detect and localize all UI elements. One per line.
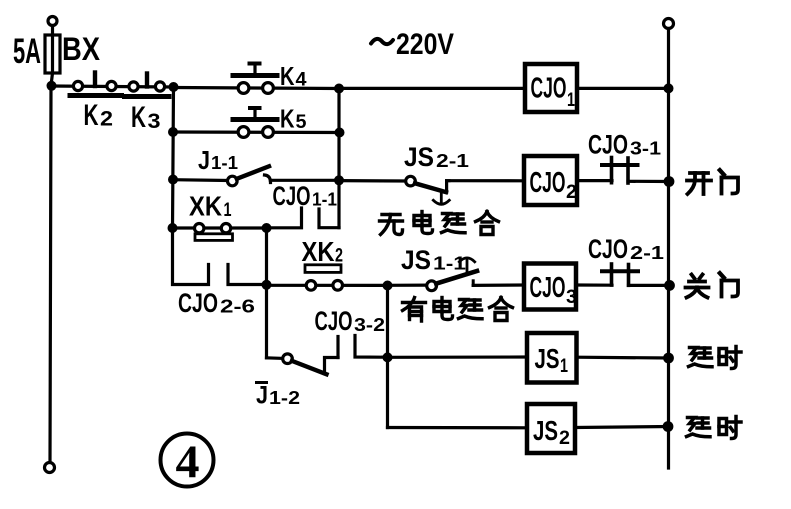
node junction close-door row / right bus	[664, 280, 675, 291]
svg-text:220V: 220V	[396, 28, 454, 61]
contact CJO1-1	[267, 208, 340, 228]
wire JS2 row	[388, 426, 528, 429]
svg-text:3-1: 3-1	[630, 139, 661, 159]
svg-text:2-6: 2-6	[220, 297, 255, 317]
label open-door 开门	[687, 170, 738, 194]
wire JS1-1 to coil CJO3	[473, 283, 524, 287]
label close-door 关门	[686, 273, 739, 297]
svg-text:4: 4	[176, 436, 200, 488]
node junction bus2 / K5 row	[168, 127, 178, 137]
svg-text:K: K	[84, 99, 99, 132]
svg-text:K: K	[131, 101, 146, 134]
svg-text:1-2: 1-2	[269, 388, 300, 408]
pushbutton K4	[233, 64, 277, 94]
wire right bus	[667, 29, 670, 469]
svg-text:XK: XK	[189, 191, 222, 222]
node junction delay1 row / right bus	[663, 353, 674, 364]
svg-text:CJO: CJO	[530, 167, 566, 199]
node junction row1 / bus2	[169, 82, 179, 92]
coil CJO1 box	[525, 64, 577, 112]
wire bus3 vertical	[337, 89, 340, 228]
node junction delay2 row / right bus	[663, 421, 674, 432]
svg-text:CJO: CJO	[178, 288, 218, 318]
svg-text:CJO: CJO	[588, 234, 628, 264]
label wu-dian-yan-he 无电延合	[380, 212, 499, 235]
node junction left bus / row1	[47, 81, 57, 91]
label delay1 延时	[689, 347, 742, 369]
node junction CJO2-6 / bus4 / XK2 row	[262, 280, 272, 290]
wire JS1 row	[388, 355, 528, 358]
contact CJO2-1	[602, 264, 638, 285]
label you-dian-yan-he 有电延合	[403, 298, 513, 322]
node junction XK1 row / bus4	[262, 223, 272, 233]
terminal bottom-left	[45, 463, 55, 473]
coil JS2 box	[527, 404, 575, 453]
wire XK2 row	[267, 284, 388, 287]
svg-text:1: 1	[560, 356, 568, 377]
wire left bus	[50, 73, 53, 463]
label J1-2 overline	[255, 381, 268, 384]
wire K5 row	[173, 130, 340, 134]
wire bus3 to JS2-1	[339, 179, 408, 183]
wire CJO3-1 to right bus	[628, 180, 669, 183]
label delay2 延时	[687, 417, 742, 439]
svg-text:CJO: CJO	[588, 130, 628, 160]
limit switch XK2	[305, 265, 343, 290]
wire CJO1 to right bus	[577, 87, 669, 90]
wire J1-1 row left	[173, 178, 228, 182]
svg-text:K: K	[280, 103, 295, 133]
svg-text:3: 3	[566, 287, 577, 308]
pushbutton K5	[233, 108, 277, 137]
node junction bus2 / J1-1 row	[168, 175, 178, 185]
svg-text:1-1: 1-1	[433, 254, 466, 274]
node junction bus2 / XK1 row	[168, 223, 178, 233]
svg-text:1: 1	[224, 200, 232, 221]
wire JS1 to right bus	[577, 356, 669, 360]
wire JS2-1 to coil CJO2	[447, 179, 524, 182]
svg-text:JS: JS	[535, 343, 560, 374]
wire XK1 row	[173, 226, 267, 229]
coil JS1 box	[527, 333, 577, 383]
svg-text:4: 4	[296, 70, 307, 91]
svg-text:CJO: CJO	[315, 306, 353, 336]
node junction K5 row / bus3	[335, 128, 345, 138]
wire JS2 to right bus	[575, 427, 669, 428]
terminal top-right	[664, 19, 674, 29]
node junction J1-1 row / bus3	[334, 175, 344, 185]
node junction JS1 row / bus5	[383, 352, 393, 362]
wire	[51, 26, 54, 74]
svg-text:2: 2	[335, 246, 343, 267]
wire row1 to coil CJO1	[339, 87, 525, 90]
svg-text:CJO: CJO	[531, 73, 567, 105]
svg-text:BX: BX	[62, 31, 101, 67]
node junction open-door row / right bus	[664, 176, 675, 187]
svg-text:2: 2	[566, 182, 577, 203]
wire CJO3 to contact CJO2-1	[576, 283, 612, 286]
contact CJO2-6	[173, 228, 267, 285]
terminal top-left	[48, 17, 57, 26]
contact JS2-1 delayed	[406, 176, 450, 204]
wire bus2 vertical	[173, 87, 174, 228]
coil CJO3 box	[524, 264, 576, 310]
wire bus5 vertical	[386, 286, 389, 428]
svg-text:2-1: 2-1	[630, 243, 664, 263]
svg-text:JS: JS	[404, 142, 434, 172]
svg-text:3: 3	[148, 110, 161, 133]
svg-text:JS: JS	[533, 415, 558, 446]
coil CJO2 box	[524, 156, 577, 205]
svg-text:3-2: 3-2	[354, 315, 385, 335]
svg-text:CJO: CJO	[530, 272, 566, 304]
contact CJO3-1	[602, 158, 638, 184]
contact J1-2	[283, 354, 338, 374]
wire row1 K2K3	[52, 86, 174, 87]
wire row1 to K4	[174, 88, 340, 89]
contact J1-1	[228, 166, 271, 186]
node junction XK2 row / bus5	[383, 281, 393, 291]
wire J1-1 to bus3	[271, 179, 340, 182]
svg-text:1-1: 1-1	[211, 153, 238, 173]
svg-text:2: 2	[559, 428, 570, 449]
wire CJO2-1 to right bus	[629, 284, 669, 287]
wire J1-2 row lead	[267, 356, 283, 360]
svg-text:1-1: 1-1	[312, 190, 337, 210]
wire to JS1-1	[388, 284, 431, 287]
figure number circle 4	[161, 434, 214, 487]
svg-text:K: K	[280, 61, 295, 91]
svg-text:JS: JS	[401, 245, 431, 275]
switch K3	[125, 74, 170, 97]
node junction row1 / right bus	[664, 83, 674, 93]
switch K2	[70, 73, 122, 96]
svg-text:2-1: 2-1	[436, 151, 469, 171]
svg-text:5A: 5A	[13, 32, 41, 71]
svg-text:XK: XK	[302, 236, 335, 267]
node junction row1 / bus3	[334, 84, 344, 94]
contact JS1-1 delayed	[427, 258, 477, 291]
wire CJO2 to contact CJO3-1	[577, 179, 612, 182]
fuse BX	[45, 35, 60, 73]
svg-text:2: 2	[100, 108, 113, 131]
svg-text:5: 5	[296, 112, 307, 133]
label ~220V tilde	[371, 39, 393, 44]
svg-text:1: 1	[567, 90, 575, 111]
svg-text:J: J	[198, 145, 210, 175]
limit switch XK1	[195, 224, 233, 241]
wire bus4 vertical	[265, 228, 268, 358]
svg-text:CJO: CJO	[273, 181, 311, 211]
contact CJO3-2	[338, 336, 388, 358]
svg-text:J: J	[256, 382, 268, 410]
